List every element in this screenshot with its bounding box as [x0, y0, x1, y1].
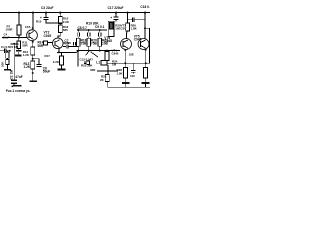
resistor R25 label [100, 75, 107, 82]
resistor column B labels [91, 39, 98, 46]
node VT2 emitter dot [32, 41, 34, 43]
ground bar R17 [58, 69, 66, 71]
svg-text:1.2K: 1.2K [24, 65, 31, 69]
transistor VT5 [121, 39, 132, 50]
wire bottom rail [107, 86, 150, 88]
node input dot [9, 50, 11, 52]
svg-text:50R: 50R [38, 44, 45, 48]
resistor R27 [124, 68, 128, 79]
wire rail to VT7 [144, 13, 146, 39]
wire R18 to VT3 collector [58, 32, 60, 38]
svg-text:0.068: 0.068 [64, 41, 72, 45]
transistor VT7 [138, 39, 149, 50]
wire VT5 emitter to output node [124, 49, 126, 68]
wire VT3 base [48, 42, 54, 44]
node upper bus dots [77, 29, 100, 31]
inductor L1 [101, 61, 107, 66]
svg-text:30R: 30R [90, 68, 96, 72]
wire VT5 collector [126, 33, 128, 39]
capacitor column A [77, 30, 79, 38]
node output dots [124, 62, 146, 64]
svg-text:R19 30K: R19 30K [86, 21, 99, 25]
wire top supply rail [0, 12, 150, 14]
wire R14 to R13 [32, 55, 34, 61]
svg-text:50uF: 50uF [43, 69, 50, 73]
resistor R12 [17, 38, 21, 49]
capacitor C18 [128, 17, 145, 22]
capacitor C6 [33, 59, 42, 67]
transistor VT2 [27, 30, 38, 41]
capacitor column B [88, 30, 90, 38]
transistor VT3 [53, 38, 64, 49]
wire rail to VT2 collector [32, 13, 34, 30]
node lower bus dots [77, 50, 108, 52]
node base junction [18, 36, 20, 38]
resistor R25 [105, 75, 109, 82]
capacitor C5 plates [15, 49, 22, 57]
wire VT7 emitter [145, 49, 147, 68]
svg-text:C17 220uF: C17 220uF [108, 6, 124, 10]
svg-text:2.2K: 2.2K [53, 60, 60, 64]
wire C12 drop [77, 51, 79, 67]
capacitor C7 [63, 45, 78, 48]
node VT2 collector dot [32, 27, 34, 29]
node rail junction dots [18, 12, 146, 14]
node VT3 emitter dot [58, 51, 60, 53]
wire output mid node [97, 65, 118, 75]
wire input [0, 50, 4, 52]
svg-text:100: 100 [130, 74, 135, 78]
svg-text:L1: L1 [96, 61, 100, 65]
resistor R18 labels [63, 25, 69, 32]
ground bar feedback [13, 85, 21, 87]
transistor VT5 labels [134, 35, 142, 42]
svg-text:C945: C945 [104, 39, 112, 43]
resistor R2 [6, 58, 9, 69]
wire VT2 emitter [32, 40, 34, 47]
capacitor C17 [114, 13, 119, 22]
capacitor C3 [44, 13, 63, 23]
svg-text:1K5: 1K5 [25, 25, 31, 29]
resistor R22 [84, 61, 89, 65]
ground bar left output [122, 82, 130, 84]
resistor R12 labels [22, 40, 28, 47]
svg-text:R17: R17 [45, 54, 51, 58]
wire R13 to ground [32, 69, 34, 80]
resistor R16 [58, 13, 62, 24]
capacitor C7 labels [64, 39, 69, 46]
resistor R14 [31, 47, 35, 55]
ground bar right output [142, 82, 150, 84]
capacitor C24 [131, 63, 136, 74]
wire bar to rail right [145, 84, 147, 87]
svg-text:+: + [110, 16, 112, 20]
text C19 [121, 23, 127, 30]
wire diagonal right [91, 52, 99, 58]
resistor R7 [17, 13, 21, 38]
resistor R26 [126, 13, 130, 33]
wire R25 to bottom rail [106, 81, 108, 87]
resistor column C labels [102, 39, 109, 46]
svg-text:1.2K: 1.2K [23, 53, 30, 57]
resistor R13 labels [24, 62, 31, 69]
svg-text:2.2K: 2.2K [63, 20, 70, 24]
svg-text:C12 0.047: C12 0.047 [80, 58, 94, 62]
node feedback top dot [13, 43, 15, 45]
svg-text:75B: 75B [91, 41, 98, 45]
trimmer box VT2 [44, 41, 48, 45]
ground bar VT2 chain [30, 80, 38, 82]
capacitor small mid [74, 42, 76, 46]
svg-text:30R: 30R [22, 43, 28, 47]
node VT7 emitter dot [145, 49, 147, 51]
svg-text:C18 0.1: C18 0.1 [140, 5, 150, 9]
wire R27 to ground [124, 78, 126, 82]
resistor R27 labels [117, 68, 124, 75]
capacitor C2 labels [15, 75, 22, 79]
node emitter chain dot [32, 58, 34, 60]
wire R28 to ground [145, 78, 147, 82]
svg-text:75B: 75B [81, 41, 88, 45]
wire feedback vertical [13, 44, 15, 80]
capacitor C2 polarized [11, 80, 17, 85]
svg-text:Puc.1 cxema yc.: Puc.1 cxema yc. [6, 89, 31, 93]
resistor R20 labels [115, 24, 121, 31]
svg-text:C945: C945 [44, 34, 52, 38]
resistor R17 [60, 52, 64, 68]
resistor R14 labels [38, 41, 45, 48]
resistor R26 labels [131, 23, 138, 30]
svg-text:10E: 10E [129, 52, 134, 56]
resistor R18 [58, 24, 62, 33]
wire lower bus [77, 50, 121, 52]
transistor VT6 labels [104, 36, 112, 43]
svg-text:100R: 100R [6, 27, 14, 31]
svg-text:47uF: 47uF [15, 75, 22, 79]
transistor VT2 labels [44, 31, 52, 38]
wire right edge [145, 28, 149, 63]
resistor R17 labels [45, 54, 60, 64]
trimmer box resistor [110, 23, 113, 30]
node mid dot [107, 70, 109, 72]
svg-text:C8 0.7: C8 0.7 [78, 26, 88, 30]
wire diagonal left [86, 51, 89, 55]
capacitor column C [99, 30, 101, 38]
wire input node to VT2 base [2, 37, 27, 39]
ground bar input [4, 69, 11, 71]
node feedback bottom dot [11, 85, 13, 87]
resistor R24 labels [112, 60, 118, 67]
node VT7 collector dot [144, 27, 146, 29]
resistor R13 [31, 61, 35, 69]
resistor R1 [6, 51, 10, 59]
transistor VT4 label [112, 48, 119, 55]
svg-text:C3 22uF: C3 22uF [41, 6, 53, 10]
wire feedback top link [11, 43, 19, 45]
wire output node [107, 62, 150, 64]
resistor R16 labels [63, 17, 70, 24]
resistor R12 value labels [23, 50, 30, 57]
wire bar to rail left [125, 84, 127, 87]
resistor column A labels [81, 39, 88, 46]
capacitor C6 labels [43, 66, 50, 73]
svg-text:C945: C945 [112, 51, 119, 55]
resistor column B [87, 38, 90, 50]
capacitor C1 [4, 49, 10, 54]
resistor column C [98, 38, 101, 50]
resistor R28 [143, 68, 147, 79]
capacitor C4 label [3, 33, 10, 40]
node R13 bottom dot [32, 72, 34, 74]
svg-text:1.5K: 1.5K [117, 71, 124, 75]
trimmer box outer [108, 21, 114, 36]
svg-text:R15: R15 [36, 20, 42, 24]
resistor column A [77, 38, 80, 50]
wire upper bus [77, 29, 107, 31]
svg-text:C2 1M: C2 1M [9, 70, 13, 80]
svg-text:1.8K: 1.8K [131, 26, 138, 30]
svg-text:685: 685 [63, 28, 68, 32]
svg-text:C9 0.1: C9 0.1 [95, 25, 105, 29]
svg-text:10K: 10K [1, 61, 5, 67]
node VT5 emitter dot [124, 49, 126, 51]
wire VT3 emitter node [57, 48, 78, 52]
resistor R24 [105, 51, 109, 61]
resistor R7 labels [6, 24, 14, 31]
